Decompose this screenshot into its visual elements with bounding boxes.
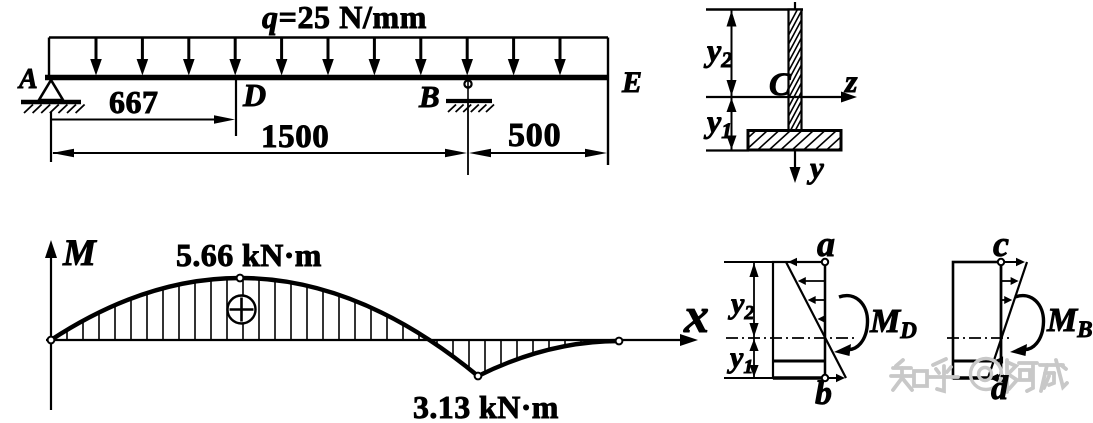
svg-text:B: B [418,79,440,114]
svg-text:667: 667 [109,84,159,120]
svg-text:c: c [993,224,1009,264]
svg-text:500: 500 [508,117,561,154]
svg-text:C: C [769,67,792,103]
svg-text:D: D [242,77,266,113]
svg-text:A: A [17,64,38,95]
svg-text:M: M [62,233,97,274]
svg-text:z: z [844,63,858,99]
svg-text:q=25 N/mm: q=25 N/mm [262,0,427,35]
svg-text:E: E [621,66,642,99]
svg-text:x: x [683,287,709,343]
svg-text:b: b [815,375,832,412]
svg-text:3.13 kN·m: 3.13 kN·m [413,389,559,423]
svg-text:1500: 1500 [261,119,329,155]
svg-text:5.66 kN·m: 5.66 kN·m [176,237,322,273]
svg-text:a: a [817,224,835,264]
svg-text:d: d [991,370,1009,407]
